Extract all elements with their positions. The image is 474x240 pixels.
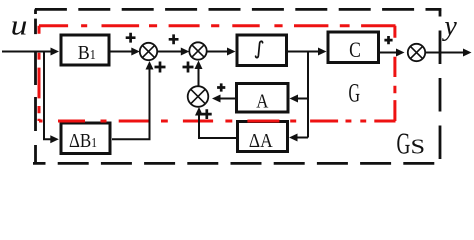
wire: sum1 to sum2 bbox=[157, 51, 181, 53]
wire: input u bbox=[2, 51, 51, 53]
svg-text:ΔA: ΔA bbox=[249, 130, 273, 153]
summing junction sum1 bbox=[140, 43, 157, 60]
wire: B1 to sum1 bbox=[109, 51, 132, 53]
block C bbox=[328, 32, 379, 63]
block A bbox=[237, 84, 289, 113]
red dash-dot box G : bottom edge bbox=[39, 120, 396, 123]
block B1 bbox=[61, 35, 109, 65]
svg-text:C: C bbox=[349, 38, 361, 62]
plus: sum2 bottom-left bbox=[183, 62, 194, 73]
svg-text:y: y bbox=[441, 11, 457, 42]
outer dashed box Gs : top edge bbox=[35, 8, 442, 11]
plus: sum1 bottom-right bbox=[155, 62, 166, 73]
wire: A out to sum3 bbox=[220, 98, 235, 100]
red dash-dot box G : right edge bbox=[393, 26, 396, 121]
svg-text:G: G bbox=[349, 79, 361, 108]
svg-text:G: G bbox=[397, 126, 411, 161]
summing junction sum4 bbox=[408, 44, 425, 61]
wire: sum3 up to sum2 bbox=[198, 69, 200, 86]
plus: sum3 bottom-right bbox=[202, 109, 212, 119]
block integrator bbox=[237, 35, 287, 66]
summing junction sum3 bbox=[188, 86, 209, 107]
plus: sum1 top-left bbox=[126, 33, 136, 43]
label u bbox=[11, 9, 28, 41]
plus: sum3 right-top bbox=[217, 83, 225, 91]
wire: sum2 to integrator bbox=[207, 51, 228, 53]
red dash-dot box G : top edge bbox=[39, 24, 396, 27]
wire: into A bbox=[297, 98, 308, 100]
wire: dB1 out up to sum1 bbox=[112, 70, 150, 140]
svg-text:S: S bbox=[411, 136, 426, 159]
wire: integrator to C bbox=[288, 51, 318, 53]
summing junction sum2 bbox=[189, 42, 206, 59]
plus: sum2 top-left bbox=[169, 34, 179, 44]
block dA bbox=[238, 122, 288, 153]
block dB1 bbox=[61, 123, 110, 154]
wire: C to sum4 bbox=[379, 52, 396, 54]
red dash-dot box G : left edge bbox=[38, 26, 41, 121]
plus: sum4 left-top bbox=[384, 36, 392, 44]
label Gs bbox=[397, 126, 426, 161]
label y bbox=[441, 11, 457, 42]
wire: state branch down bbox=[307, 52, 309, 138]
svg-text:A: A bbox=[256, 90, 269, 113]
wire: dA out to sum3 bbox=[199, 115, 236, 138]
wire: dA out vertical redrawn over red bbox=[198, 118, 200, 124]
wire: output y bbox=[426, 52, 463, 54]
wire: into dA bbox=[297, 137, 308, 139]
svg-text:u: u bbox=[11, 9, 28, 41]
outer dashed box Gs : left edge bbox=[34, 9, 37, 163]
outer dashed box Gs : right edge bbox=[439, 9, 442, 163]
wire: branch down to dB1 bbox=[44, 51, 51, 140]
outer dashed box Gs : bottom edge bbox=[33, 162, 440, 165]
